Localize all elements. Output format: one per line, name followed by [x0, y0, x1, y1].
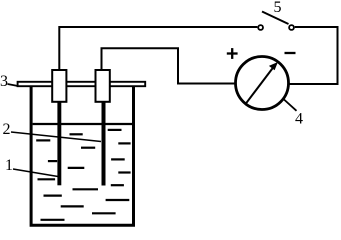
liquid dash	[111, 158, 125, 160]
liquid dash	[48, 160, 57, 162]
wire: from right electrode stub to meter left side	[102, 48, 236, 83]
water surface line	[33, 123, 132, 125]
electrode holder left	[52, 70, 66, 102]
liquid dash	[70, 133, 83, 135]
meter G (galvanometer) U1	[236, 57, 289, 110]
liquid dash	[111, 184, 124, 186]
svg-text:5: 5	[274, 0, 282, 16]
liquid dash	[68, 167, 85, 169]
meter needle	[245, 62, 278, 104]
electrode right (rod)	[102, 101, 106, 186]
liquid dash	[44, 195, 62, 197]
label 2 pointer line	[11, 132, 101, 142]
wire: top wire from left electrode stub to switch	[59, 27, 257, 71]
liquid dash	[73, 188, 99, 190]
liquid dash	[61, 205, 84, 207]
meter + terminal mark	[227, 48, 238, 59]
liquid dash	[118, 142, 130, 144]
switch S contact left	[258, 25, 263, 30]
label 1 pointer line	[13, 169, 58, 177]
svg-text:4: 4	[295, 111, 303, 128]
svg-text:1: 1	[5, 157, 13, 174]
beaker outline	[31, 87, 133, 225]
electrode holder right	[96, 70, 110, 102]
svg-text:3: 3	[0, 73, 8, 90]
liquid dash	[38, 178, 56, 180]
label 3 pointer line	[8, 84, 19, 86]
switch S blade	[262, 12, 289, 25]
liquid dash	[92, 212, 116, 214]
label 4 pointer line	[284, 100, 297, 111]
liquid dash	[106, 199, 130, 201]
lid / cover plate	[18, 82, 146, 86]
liquid dash	[118, 171, 130, 173]
svg-text:2: 2	[3, 121, 11, 138]
switch S contact right	[289, 25, 294, 30]
meter - terminal mark	[285, 52, 296, 54]
wire: from switch right contact to top-right corner and down to meter right side	[290, 27, 338, 84]
liquid dash	[41, 219, 65, 221]
liquid dash	[108, 129, 122, 131]
liquid dash	[36, 139, 50, 141]
liquid dash	[81, 147, 95, 149]
electrode left (rod)	[57, 101, 61, 185]
